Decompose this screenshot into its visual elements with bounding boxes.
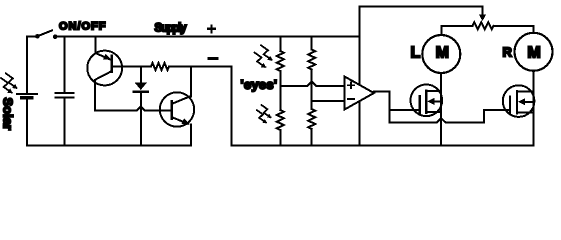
right ground rail	[232, 145, 534, 147]
svg-text:Supply: Supply	[155, 22, 188, 34]
LDR R3 left eye bottom	[277, 110, 284, 130]
op-amp U1 comparator	[345, 77, 375, 110]
light arrows into R3	[257, 105, 272, 123]
wire output to Q3 gate	[390, 109, 420, 111]
potentiometer VR1 body	[473, 22, 494, 29]
svg-text:R: R	[503, 44, 513, 59]
svg-text:M: M	[436, 44, 449, 61]
wire Q1 collector to Q2 base with hop over diode	[95, 107, 172, 111]
wire pot to motor R	[494, 25, 534, 27]
svg-text:L: L	[411, 45, 421, 62]
motor R M2	[515, 26, 553, 71]
potentiometer VR1 wiper	[482, 7, 484, 16]
supply rail wire	[55, 36, 359, 38]
op-amp output wire	[374, 92, 390, 123]
plus sign of supply	[208, 25, 215, 32]
svg-text:ON/OFF: ON/OFF	[59, 20, 106, 32]
LDR R2 left eye top	[277, 37, 284, 111]
diode D1	[134, 67, 148, 146]
wire right divider node to op-amp - input	[312, 100, 345, 102]
light arrows into solar cell	[1, 73, 18, 93]
wire node down to ground rail	[231, 67, 233, 146]
resistor R5 right divider bottom	[308, 109, 315, 129]
wire output to Q4 gate with hop over Q3 source	[390, 118, 485, 122]
left ground rail	[27, 145, 191, 147]
capacitor C1	[56, 37, 74, 146]
transistor Q2 NPN	[160, 67, 194, 146]
top rail of motor block	[360, 6, 483, 8]
solar cell battery B1	[17, 37, 37, 146]
resistor R1	[151, 63, 169, 70]
svg-text:Solar: Solar	[1, 98, 16, 131]
op-amp ground pin	[359, 102, 361, 146]
svg-text:M: M	[527, 45, 540, 62]
light arrows into R2	[255, 45, 273, 68]
MOSFET Q3 left	[411, 73, 443, 146]
op-amp V+ pin riser to top rail	[359, 7, 361, 85]
motor L M1	[422, 26, 460, 73]
wire left eye node to op-amp + input, hop over right column	[280, 82, 344, 86]
wire pot to motor L	[441, 25, 472, 27]
MOSFET Q4 right	[503, 71, 535, 146]
wire R1 to node	[169, 66, 232, 68]
switch ON/OFF S1	[27, 30, 58, 39]
minus sign of supply	[209, 57, 217, 60]
resistor R4 right divider top	[308, 37, 315, 110]
svg-text:'eyes': 'eyes'	[241, 77, 278, 92]
transistor Q1 PNP	[87, 37, 151, 111]
